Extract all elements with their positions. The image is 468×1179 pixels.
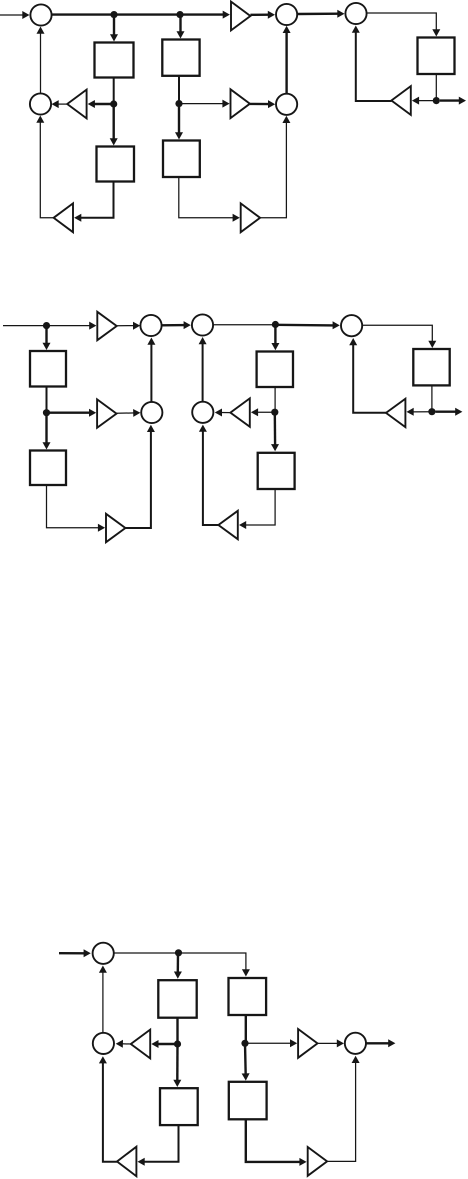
gain T2 bbox=[67, 90, 86, 119]
wire M3 down to delay G2 arrow bbox=[244, 1043, 247, 1075]
wire V3 up to P2 arrow bbox=[103, 1061, 117, 1161]
delay E4 bbox=[258, 453, 295, 489]
gain V1 bbox=[131, 1030, 150, 1059]
wire K2 to adder C1 arrow bbox=[275, 324, 334, 327]
node K1 branch dot bbox=[43, 322, 50, 329]
wire T4 to adder S5 arrow bbox=[250, 103, 270, 106]
gain T1 bbox=[231, 2, 250, 31]
wire M1 down to delay F1 arrow bbox=[177, 953, 180, 974]
wire K3 down to delay E2 arrow bbox=[45, 413, 47, 445]
wire K4 to gain U4 arrow bbox=[256, 411, 275, 413]
gain U2 bbox=[97, 399, 116, 427]
gain T4 bbox=[231, 89, 250, 118]
adder S4 bbox=[345, 3, 366, 24]
wire K5 to gain U5 arrow bbox=[412, 411, 432, 413]
wire F1 to node M2 bbox=[176, 1018, 178, 1044]
wire U3 up to A2 arrow bbox=[125, 430, 150, 528]
gain U1 bbox=[97, 312, 116, 340]
delay E1 bbox=[30, 351, 66, 387]
delay D5 bbox=[418, 38, 455, 75]
node K4 dot bbox=[271, 409, 278, 416]
wire E1 to node K3 bbox=[46, 387, 48, 413]
gain V3 bbox=[117, 1147, 136, 1177]
wire T3 up to S2 arrow bbox=[40, 121, 53, 218]
delay G1 bbox=[229, 978, 267, 1015]
delay D1 bbox=[95, 43, 134, 78]
wire output arrow of diagram 2 bbox=[436, 411, 458, 413]
wire J4 down to delay D4 arrow bbox=[178, 104, 180, 135]
wire V4 up to P3 arrow bbox=[327, 1061, 356, 1161]
delay F1 bbox=[158, 980, 196, 1018]
wire M3 to gain V2 arrow bbox=[245, 1042, 292, 1044]
delay F2 bbox=[160, 1088, 198, 1125]
wire E3 to node K4 bbox=[274, 387, 276, 412]
node M1 branch dot bbox=[175, 949, 182, 956]
gain V4 bbox=[308, 1147, 327, 1176]
wire E2 to gain U3 arrow bbox=[47, 485, 100, 528]
node K3 dot bbox=[43, 409, 50, 416]
adder S5 bbox=[276, 94, 297, 115]
delay D3 bbox=[162, 40, 199, 76]
wire F2 to gain V3 arrow bbox=[143, 1125, 179, 1162]
wire G1 down to node M3 bbox=[245, 1015, 247, 1043]
node J5 dot bbox=[433, 97, 440, 104]
adder S3 bbox=[276, 4, 297, 25]
wire T6 up to S5 arrow bbox=[260, 121, 286, 218]
wire K3 to gain U2 arrow bbox=[47, 412, 92, 414]
gain T5 bbox=[391, 86, 410, 115]
node J2 branch dot bbox=[176, 11, 183, 18]
wire E4 to gain U6 arrow bbox=[244, 489, 275, 525]
node J4 dot bbox=[175, 100, 182, 107]
wire K4 down to delay E4 arrow bbox=[274, 412, 277, 446]
wire K2 down to delay E3 arrow bbox=[274, 325, 276, 346]
delay G2 bbox=[229, 1082, 267, 1120]
wire U2 to adder A2 arrow bbox=[117, 412, 136, 414]
wire B2 up to B1 arrow bbox=[202, 342, 204, 401]
wire E5 to node K5 bbox=[431, 385, 433, 411]
adder A1 bbox=[140, 315, 161, 336]
gain V2 bbox=[298, 1029, 317, 1058]
wire K1 to gain U1 arrow bbox=[47, 325, 92, 327]
delay E5 bbox=[413, 349, 449, 385]
gain U6 bbox=[218, 511, 237, 539]
adder C1 bbox=[341, 315, 362, 336]
wire A1 to adder B1 arrow bbox=[162, 324, 186, 327]
wire C1 to delay E5 bbox=[363, 325, 433, 343]
wire input arrow of diagram 3 bbox=[59, 952, 86, 954]
adder P3 bbox=[345, 1033, 366, 1054]
wire D3 to node J4 bbox=[178, 76, 180, 104]
wire U5 feedback to C1 arrow bbox=[353, 343, 386, 413]
wire D4 to gain T6 arrow bbox=[179, 177, 235, 218]
wire U4 to adder B2 arrow bbox=[220, 412, 230, 414]
wire U6 up to B2 arrow bbox=[203, 430, 219, 525]
wire A2 up to A1 arrow bbox=[150, 343, 152, 402]
wire P2 up to P1 arrow bbox=[102, 971, 104, 1033]
wire J2 down to delay D3 arrow bbox=[179, 15, 181, 34]
wire output arrow of section 3 bbox=[440, 99, 461, 101]
wire V2 to adder P3 arrow bbox=[318, 1042, 339, 1044]
wire J1 down to delay D1 arrow bbox=[113, 15, 115, 37]
wire J5 to gain T5 arrow bbox=[417, 100, 436, 102]
wire input arrow into adder S1 bbox=[0, 14, 24, 16]
wire J3 down to delay D2 arrow bbox=[112, 104, 114, 140]
wire S5 up to S3 arrow bbox=[285, 31, 287, 94]
wire T1 to adder S3 arrow bbox=[250, 13, 269, 16]
node M2 dot bbox=[174, 1040, 181, 1047]
wire S4 to delay D5 bbox=[367, 13, 437, 31]
gain T3 bbox=[54, 203, 73, 232]
wire D2 to gain T3 arrow bbox=[79, 182, 113, 218]
gain T6 bbox=[241, 203, 260, 232]
wire K1 down to delay E1 arrow bbox=[45, 326, 47, 345]
wire B1 to node K2 bbox=[213, 324, 275, 326]
node J1 branch dot bbox=[110, 11, 117, 18]
wire P1 top line to delay G1 bbox=[114, 953, 246, 971]
node K2 branch dot bbox=[272, 321, 279, 328]
wire M2 down to delay F2 arrow bbox=[176, 1044, 179, 1082]
gain U4 bbox=[230, 398, 249, 426]
wire J3 to gain T2 arrow bbox=[93, 103, 114, 105]
wire input line of diagram 2 bbox=[3, 325, 47, 327]
wire M2 to gain V1 arrow bbox=[157, 1043, 178, 1045]
node K5 dot bbox=[428, 408, 435, 415]
wire V1 to adder P2 arrow bbox=[121, 1043, 131, 1045]
adder S1 bbox=[30, 4, 51, 25]
adder B2 bbox=[192, 402, 213, 423]
node J3 dot bbox=[110, 100, 117, 107]
wire D5 to node J5 bbox=[435, 74, 437, 101]
wire D1 to node J3 bbox=[113, 78, 115, 105]
wire J4 to gain T4 arrow bbox=[179, 103, 224, 105]
node M3 dot bbox=[241, 1040, 248, 1047]
wire G2 to gain V4 arrow bbox=[246, 1119, 302, 1162]
wire U1 to adder A1 arrow bbox=[117, 325, 135, 327]
adder A2 bbox=[141, 402, 162, 423]
delay D2 bbox=[97, 147, 135, 182]
wire output arrow of diagram 3 bbox=[366, 1042, 390, 1044]
adder S2 bbox=[30, 93, 51, 114]
delay E3 bbox=[257, 352, 293, 388]
wire S2 up to S1 arrow bbox=[40, 32, 42, 94]
delay E2 bbox=[30, 451, 66, 486]
wire T2 to adder S2 arrow bbox=[57, 103, 67, 105]
wire S3 to adder S4 arrow bbox=[297, 12, 339, 15]
wire main line S1 to gain T1 with arrow bbox=[52, 13, 225, 15]
gain U5 bbox=[386, 399, 405, 427]
adder P1 bbox=[93, 943, 114, 964]
adder B1 bbox=[192, 314, 213, 335]
delay D4 bbox=[163, 141, 200, 178]
adder P2 bbox=[93, 1033, 114, 1054]
wire T5 feedback to S4 arrow bbox=[356, 31, 392, 101]
gain U3 bbox=[106, 514, 125, 542]
